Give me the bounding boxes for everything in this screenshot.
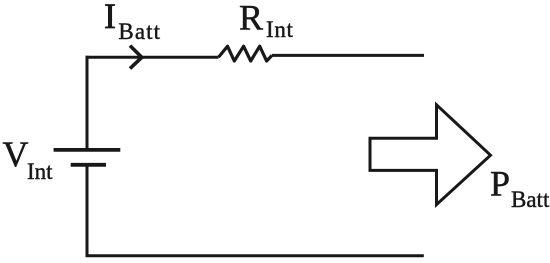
wire: top horizontal segment from corner to resistor [86, 56, 219, 59]
svg-text:P: P [490, 164, 510, 204]
svg-text:Batt: Batt [118, 19, 161, 44]
svg-text:R: R [239, 0, 263, 37]
wire: left vertical segment from top-left corner down to battery positive plate [86, 56, 89, 150]
power flow block arrow (points right) [370, 105, 491, 205]
wire: left vertical segment from battery negative plate down to bottom-left corner, then bottom horizontal to open right end [87, 165, 424, 256]
svg-text:Int: Int [266, 17, 294, 42]
svg-text:I: I [104, 0, 116, 36]
current direction arrowhead on top wire [130, 46, 142, 69]
battery V_Int positive plate (long) [54, 148, 121, 152]
wire: top horizontal segment from resistor to open right end [272, 54, 424, 57]
svg-text:Batt: Batt [511, 187, 550, 212]
battery V_Int negative plate (short) [71, 163, 106, 167]
resistor R_Int zigzag [219, 46, 273, 61]
svg-text:Int: Int [27, 159, 53, 184]
svg-text:V: V [3, 134, 29, 174]
